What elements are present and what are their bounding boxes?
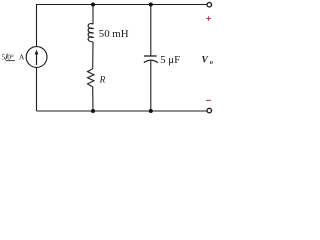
svg-text:A: A [19,52,25,61]
label - polarity [206,99,211,101]
svg-text:V: V [202,56,209,66]
node bottom capacitor junction [149,109,153,113]
svg-text:°: ° [11,52,14,61]
inductor L1 coil [88,24,93,42]
capacitor C1 top plate [144,55,157,57]
node top capacitor junction [149,3,153,7]
svg-text:50 mH: 50 mH [99,28,129,40]
svg-text:5 μF: 5 μF [160,54,180,66]
terminal top right [207,2,212,7]
wire middle branch upper [92,5,94,25]
resistor R zigzag [88,69,95,87]
wire left branch upper [36,4,38,47]
svg-text:5: 5 [1,52,5,61]
wire left branch lower [36,67,38,111]
wire bottom rail [37,110,207,112]
terminal bottom right [207,108,212,113]
wire capacitor branch upper [150,5,152,57]
wire capacitor branch lower [150,61,152,111]
node top middle junction [91,3,95,7]
svg-text:o: o [210,59,213,66]
wire top rail [37,4,207,6]
source label 5 angle 0 deg A [1,52,25,61]
label + polarity [206,16,211,20]
wire middle branch lower [92,87,94,111]
current source I1 [26,47,47,68]
svg-text:R: R [99,75,106,85]
node bottom middle junction [91,109,95,113]
wire middle branch between L and R [92,42,94,69]
capacitor C1 curved plate [144,60,158,62]
